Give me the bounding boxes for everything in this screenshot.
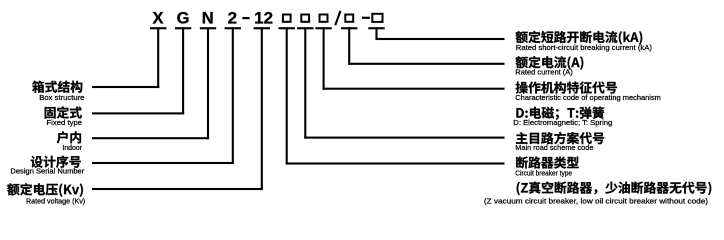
- wire from box to right label: rated breaking current (horizontal): [375, 38, 504, 40]
- slash separator: [335, 11, 340, 25]
- tick bar under 12: [254, 27, 270, 29]
- svg-text:Design Serial Number: Design Serial Number: [10, 166, 84, 175]
- wire from code to left label: rated voltage (horizontal): [92, 188, 263, 190]
- wire from code to left label: indoor (horizontal): [92, 137, 209, 139]
- svg-text:N: N: [202, 9, 214, 27]
- svg-text:Main road scheme code: Main road scheme code: [515, 143, 593, 152]
- wire from code to left label: box structure (vertical): [157, 27, 159, 88]
- tick bar under N: [200, 27, 216, 29]
- hyphen before box 5: [362, 17, 370, 19]
- tick bar under 2: [225, 27, 241, 29]
- wire from box to right label: rated breaking current (vertical): [375, 27, 377, 40]
- svg-text:2: 2: [228, 8, 237, 27]
- label: 户内 (Indoor): [57, 131, 81, 143]
- svg-text:Indoor: Indoor: [62, 143, 82, 152]
- wire from code to left label: rated voltage (vertical): [261, 27, 263, 190]
- label: 额定短路开断电流(kA): [516, 31, 643, 45]
- label: 操作机构特征代号: [516, 82, 617, 94]
- label: 断路器类型: [516, 156, 579, 168]
- tick bar under box 1: [279, 27, 295, 29]
- tick bar under X: [150, 27, 166, 29]
- tick bar under box 4: [341, 27, 357, 29]
- placeholder box 4 (rated current): [345, 15, 353, 22]
- wire from box to right label: operating mechanism code (vertical): [323, 27, 325, 90]
- label: 额定电压(Kv) (Rated voltage): [7, 183, 83, 197]
- tick bar under G: [175, 27, 191, 29]
- label: 设计序号 (Design Serial Number): [31, 156, 81, 168]
- wire from box to right label: rated current (vertical): [348, 27, 350, 65]
- svg-text:Rated voltage (Kv): Rated voltage (Kv): [26, 196, 86, 205]
- svg-text:12: 12: [254, 8, 273, 27]
- wire from box to right label: main road scheme code (vertical): [304, 27, 306, 138]
- placeholder box 2 (main road scheme code): [301, 15, 309, 22]
- svg-text:Box structure: Box structure: [39, 93, 84, 102]
- wire from box to right label: rated current (horizontal): [348, 63, 504, 65]
- wire from box to right label: circuit breaker type (vertical): [286, 27, 288, 164]
- placeholder box 5 (rated breaking current): [372, 14, 382, 22]
- hyphen between 2 and 12: [242, 17, 249, 19]
- wire from code to left label: indoor (vertical): [207, 27, 209, 139]
- label: 额定电流(A): [516, 56, 584, 70]
- label: 箱式结构 (Box structure): [32, 81, 82, 93]
- note: D:电磁 T:弹簧: [516, 107, 604, 120]
- svg-text:X: X: [152, 9, 163, 27]
- wire from box to right label: circuit breaker type (horizontal): [286, 162, 505, 164]
- placeholder box 1 (circuit breaker type): [283, 15, 291, 22]
- wire from box to right label: operating mechanism code (horizontal): [323, 88, 505, 90]
- wire from code to left label: box structure (horizontal): [92, 86, 159, 88]
- svg-text:Rated current (A): Rated current (A): [515, 67, 573, 76]
- svg-text:Characteristic code of operati: Characteristic code of operating mechani…: [515, 93, 661, 102]
- svg-text:(Z vacuum circuit breaker, low: (Z vacuum circuit breaker, low oil circu…: [484, 196, 709, 205]
- svg-text:G: G: [177, 9, 190, 27]
- label: 固定式 (Fixed type): [45, 106, 82, 118]
- note: (Z真空断路器，少油断路器无代号): [517, 182, 712, 196]
- tick bar under box 2: [297, 27, 313, 29]
- wire from code to left label: fixed type (horizontal): [92, 112, 184, 114]
- tick bar under box 5: [368, 27, 384, 29]
- svg-text:Circuit breaker type: Circuit breaker type: [515, 168, 572, 177]
- label: 主目路方案代号: [516, 132, 604, 144]
- tick bar under box 3: [315, 27, 331, 29]
- svg-text:D: Electromagnetic; T: Spring: D: Electromagnetic; T: Spring: [513, 118, 612, 127]
- placeholder box 3 (operating mechanism code): [320, 15, 328, 22]
- wire from code to left label: fixed type (vertical): [182, 27, 184, 114]
- wire from code to left label: design serial number (horizontal): [92, 162, 234, 164]
- svg-text:Rated short-circuit breaking c: Rated short-circuit breaking current (kA…: [516, 43, 653, 52]
- wire from code to left label: design serial number (vertical): [232, 27, 234, 164]
- svg-text:Fixed type: Fixed type: [46, 118, 82, 127]
- wire from box to right label: main road scheme code (horizontal): [304, 137, 504, 139]
